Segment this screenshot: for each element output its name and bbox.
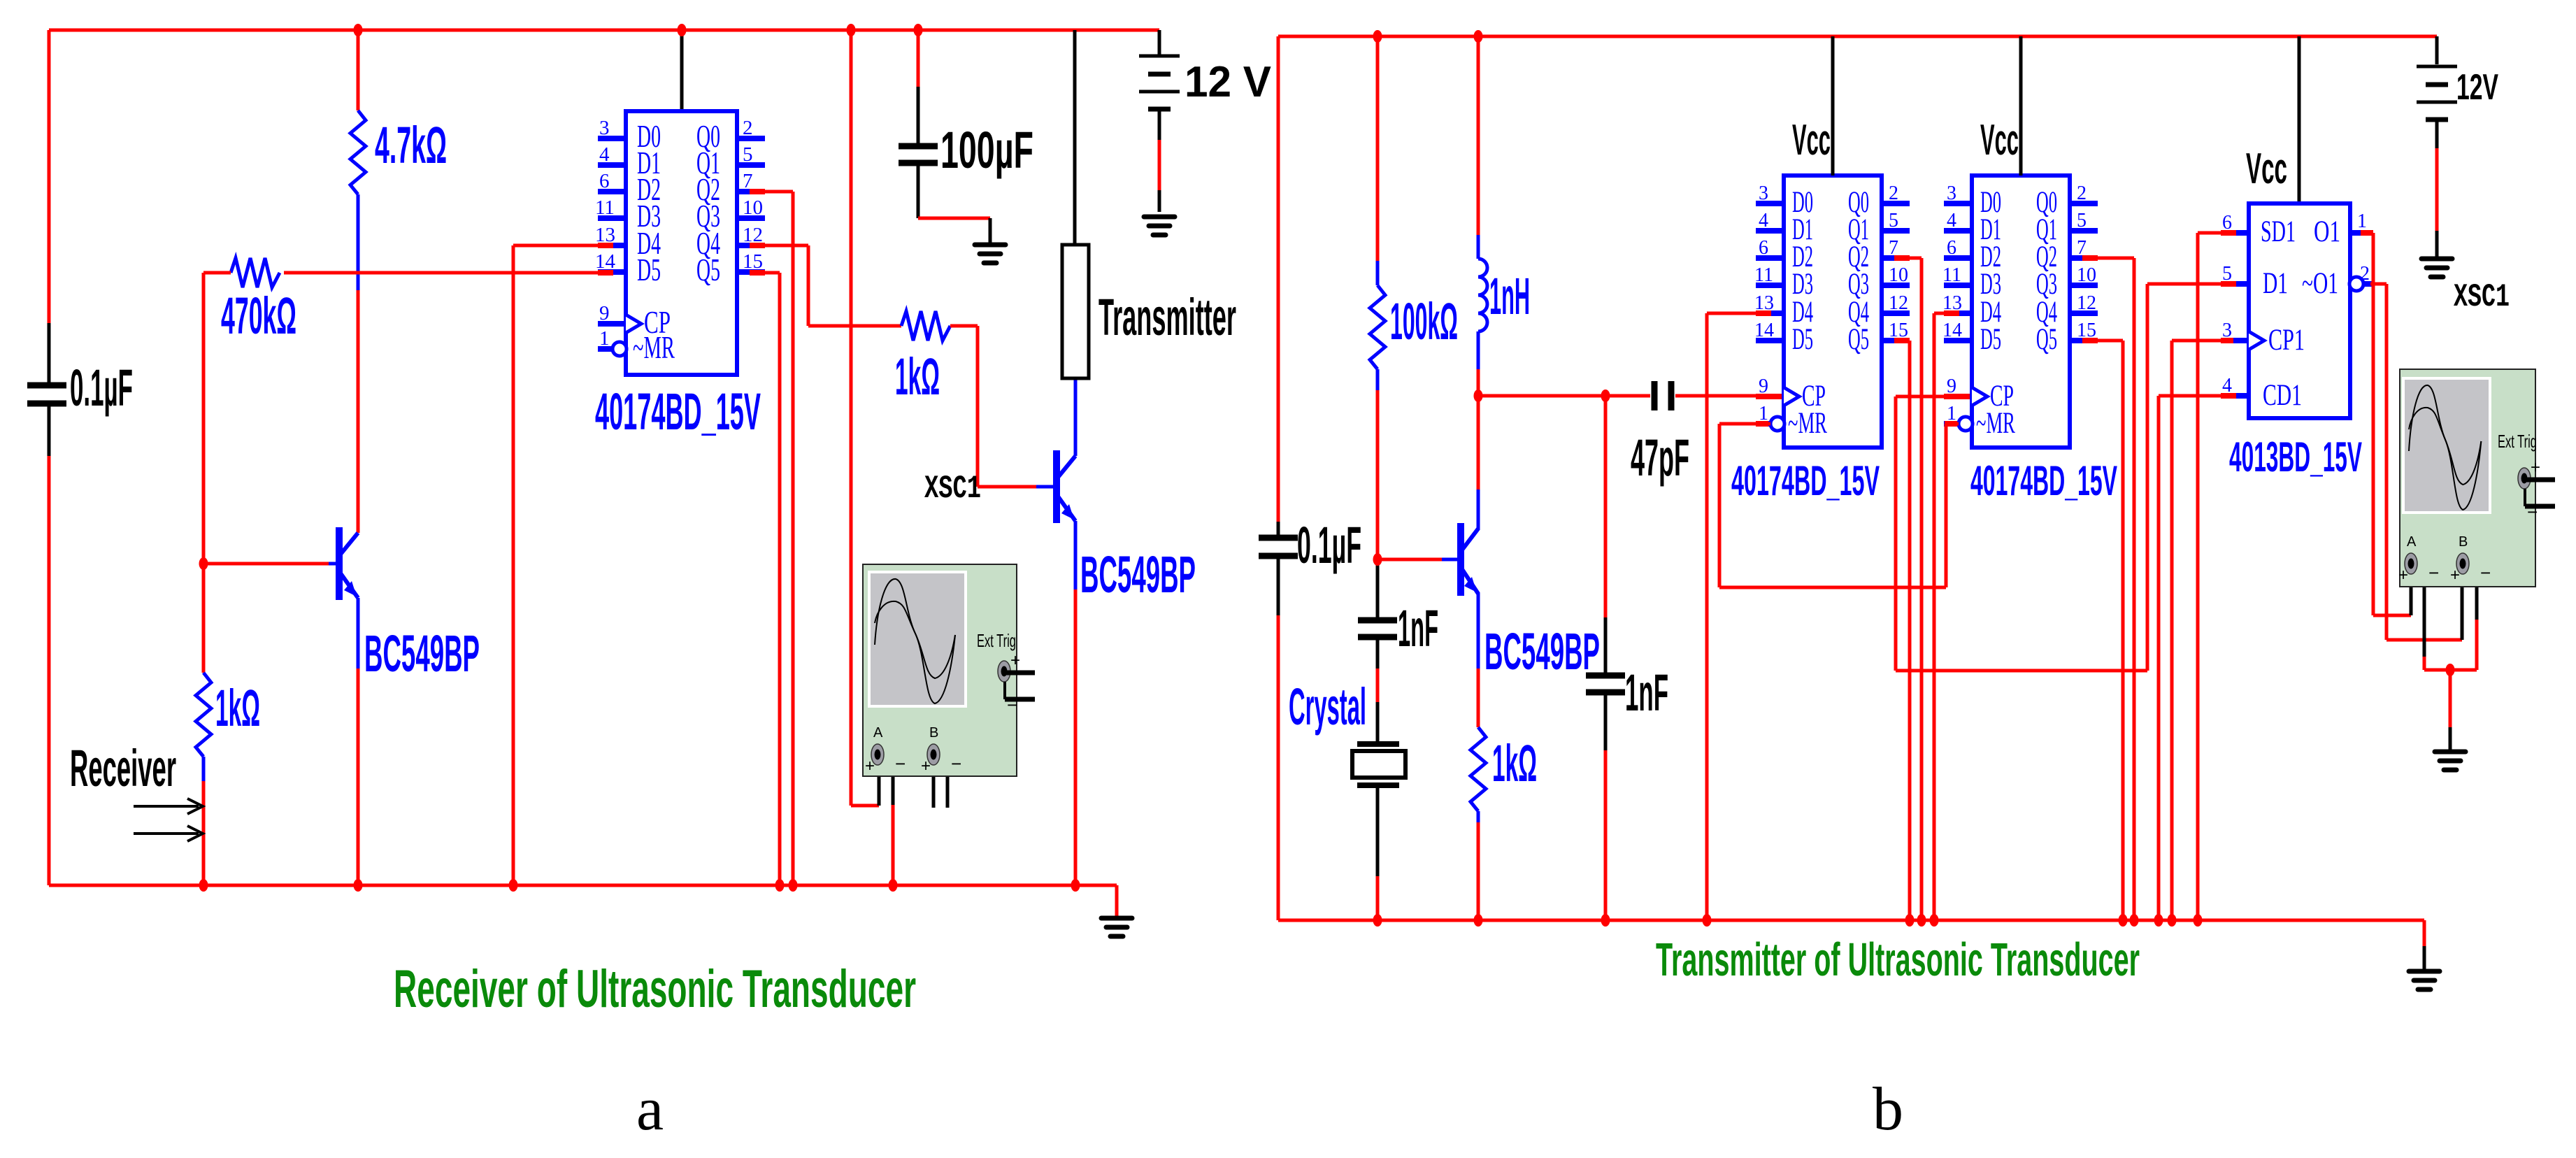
svg-text:3: 3 [1759, 183, 1768, 204]
svg-text:~MR: ~MR [1976, 407, 2015, 440]
svg-text:12: 12 [1889, 292, 1908, 314]
svg-text:1nF: 1nF [1625, 664, 1668, 722]
svg-text:+: + [2450, 566, 2460, 585]
svg-text:5: 5 [2077, 210, 2087, 231]
svg-text:470kΩ: 470kΩ [221, 287, 296, 345]
svg-text:Receiver: Receiver [70, 739, 176, 797]
svg-text:D5: D5 [637, 252, 661, 287]
svg-text:XSC1: XSC1 [924, 471, 981, 507]
svg-text:−: − [2527, 501, 2538, 522]
svg-text:Vcc: Vcc [1980, 116, 2019, 164]
svg-text:−: − [895, 753, 906, 774]
svg-text:BC549BP: BC549BP [364, 624, 480, 682]
svg-text:47pF: 47pF [1631, 429, 1689, 487]
svg-text:b: b [1873, 1075, 1903, 1143]
svg-text:Ext Trig: Ext Trig [2498, 431, 2537, 452]
svg-text:40174BD_15V: 40174BD_15V [595, 383, 761, 441]
svg-text:+: + [1010, 651, 1020, 670]
svg-text:2: 2 [743, 117, 753, 139]
svg-text:3: 3 [1947, 183, 1956, 204]
svg-text:15: 15 [743, 250, 763, 273]
svg-text:Receiver of Ultrasonic Transdu: Receiver of Ultrasonic Transducer [394, 959, 916, 1019]
svg-text:O1: O1 [2314, 215, 2340, 248]
svg-text:1kΩ: 1kΩ [215, 679, 260, 737]
svg-text:Vcc: Vcc [2246, 145, 2287, 193]
svg-text:3: 3 [599, 117, 610, 139]
svg-text:1nH: 1nH [1489, 267, 1530, 325]
svg-text:Vcc: Vcc [1792, 116, 1831, 164]
svg-text:10: 10 [743, 196, 763, 219]
svg-text:14: 14 [1754, 320, 1774, 341]
svg-text:5: 5 [1889, 210, 1898, 231]
svg-text:D5: D5 [1792, 323, 1813, 356]
svg-text:1: 1 [599, 327, 610, 350]
svg-text:2: 2 [2077, 183, 2087, 204]
svg-text:11: 11 [1754, 264, 1773, 286]
svg-text:0.1µF: 0.1µF [1297, 516, 1361, 574]
svg-text:12V: 12V [2456, 67, 2498, 108]
svg-text:40174BD_15V: 40174BD_15V [1731, 457, 1880, 504]
svg-text:XSC1: XSC1 [2454, 279, 2510, 315]
svg-text:+: + [2531, 458, 2540, 477]
svg-text:5: 5 [743, 143, 753, 166]
svg-text:a: a [636, 1075, 664, 1143]
svg-text:1kΩ: 1kΩ [1492, 734, 1537, 792]
svg-text:12: 12 [2077, 292, 2096, 314]
svg-text:100kΩ: 100kΩ [1390, 292, 1458, 350]
svg-text:B: B [929, 725, 938, 741]
svg-text:Q5: Q5 [1848, 323, 1869, 356]
svg-text:Crystal: Crystal [1289, 678, 1366, 736]
svg-text:CD1: CD1 [2263, 379, 2302, 412]
svg-text:Transmitter of Ultrasonic Tran: Transmitter of Ultrasonic Transducer [1656, 934, 2140, 986]
svg-text:+: + [2398, 566, 2408, 585]
svg-text:14: 14 [595, 250, 616, 273]
svg-text:Q5: Q5 [696, 252, 720, 287]
svg-text:14: 14 [1942, 320, 1962, 341]
svg-text:SD1: SD1 [2261, 215, 2296, 248]
svg-text:~MR: ~MR [1788, 407, 1827, 440]
svg-text:BC549BP: BC549BP [1080, 545, 1196, 603]
svg-text:+: + [865, 757, 875, 775]
svg-text:~O1: ~O1 [2302, 267, 2338, 300]
svg-text:11: 11 [595, 196, 615, 219]
svg-text:−: − [2428, 562, 2439, 583]
svg-text:Ext Trig: Ext Trig [977, 630, 1016, 651]
svg-text:6: 6 [1947, 237, 1956, 259]
svg-text:CP1: CP1 [2268, 324, 2305, 357]
svg-text:100µF: 100µF [940, 121, 1033, 179]
svg-text:−: − [2480, 562, 2491, 583]
svg-text:BC549BP: BC549BP [1484, 622, 1600, 680]
svg-text:10: 10 [2077, 264, 2096, 286]
svg-text:A: A [2407, 534, 2417, 550]
svg-text:A: A [873, 725, 883, 741]
svg-text:6: 6 [1759, 237, 1768, 259]
svg-text:D5: D5 [1980, 323, 2001, 356]
svg-text:10: 10 [1889, 264, 1908, 286]
svg-text:4.7kΩ: 4.7kΩ [375, 116, 447, 174]
svg-text:−: − [1007, 694, 1017, 715]
svg-text:9: 9 [599, 302, 610, 324]
svg-text:2: 2 [1889, 183, 1898, 204]
svg-text:4: 4 [599, 143, 610, 166]
svg-text:2: 2 [2360, 263, 2370, 285]
svg-text:4013BD_15V: 4013BD_15V [2229, 434, 2362, 480]
svg-text:40174BD_15V: 40174BD_15V [1970, 457, 2117, 504]
svg-text:−: − [951, 753, 961, 774]
svg-text:12 V: 12 V [1185, 58, 1271, 106]
svg-text:~MR: ~MR [633, 329, 675, 365]
svg-text:Q5: Q5 [2036, 323, 2057, 356]
svg-text:4: 4 [1947, 210, 1956, 231]
svg-text:1: 1 [2357, 210, 2367, 232]
svg-text:1nF: 1nF [1398, 599, 1438, 657]
svg-text:1kΩ: 1kΩ [895, 348, 940, 406]
svg-text:Transmitter: Transmitter [1099, 288, 1236, 346]
svg-text:4: 4 [1759, 210, 1768, 231]
svg-text:0.1µF: 0.1µF [70, 359, 133, 417]
svg-text:B: B [2459, 534, 2468, 550]
svg-text:6: 6 [599, 170, 610, 192]
svg-text:11: 11 [1942, 264, 1961, 286]
svg-text:+: + [921, 757, 931, 775]
svg-text:D1: D1 [2263, 267, 2288, 300]
